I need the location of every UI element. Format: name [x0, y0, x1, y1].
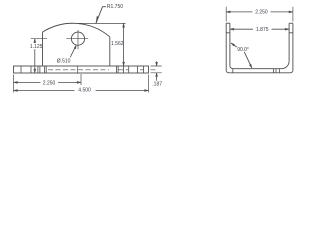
svg-text:1.875: 1.875: [256, 27, 269, 33]
svg-text:R1.750: R1.750: [107, 4, 123, 10]
svg-text:1.125: 1.125: [30, 44, 43, 50]
plate hidden ticks right: [116, 66, 143, 73]
boss left edge: [42, 32, 44, 66]
boss top arc R1.750: [43, 23, 110, 37]
hole centerline through plate: [77, 66, 79, 74]
hole crosshair horizontal: [66, 38, 88, 40]
R1.750 leader: [96, 7, 106, 24]
svg-text:2.250: 2.250: [43, 80, 56, 86]
90.0 leader to wall: [231, 43, 237, 47]
svg-text:.187: .187: [152, 82, 162, 88]
svg-text:90.0°: 90.0°: [237, 47, 249, 53]
side 2.250 dimension: [226, 7, 293, 22]
side view floor outer: [226, 70, 293, 73]
90.0 leader to floor: [244, 52, 252, 68]
svg-text:2.250: 2.250: [255, 10, 268, 16]
hole circle: [71, 32, 84, 45]
plate hidden ticks left: [21, 66, 46, 73]
side view wall hidden hole ticks: [226, 32, 293, 34]
boss right edge: [109, 37, 111, 66]
side 1.875 dimension: [230, 28, 289, 30]
1.125 extension line at hole center: [31, 38, 47, 40]
1.125 dimension line: [34, 39, 36, 73]
boss top extension line: [77, 22, 126, 24]
2.250 bottom dimension: [13, 75, 15, 93]
1.562 dimension line: [123, 23, 125, 73]
4.500 bottom dimension: [148, 75, 150, 93]
plate dashed centerline: [48, 69, 157, 71]
svg-text:Ø.510: Ø.510: [57, 59, 71, 65]
side view left wall: [226, 23, 230, 70]
side view floor ticks: [233, 69, 280, 73]
.187 thickness dimension: [151, 66, 162, 73]
diameter leader: [70, 45, 76, 57]
side view right wall: [289, 23, 293, 70]
base plate outline: [14, 66, 149, 73]
svg-text:1.562: 1.562: [111, 41, 124, 47]
hole crosshair vertical: [77, 30, 79, 49]
side view floor inner: [230, 61, 289, 68]
svg-text:4.500: 4.500: [78, 87, 91, 93]
